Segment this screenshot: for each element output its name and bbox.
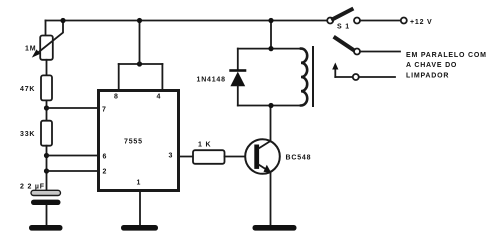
- wire S1 to +12V terminal: [360, 20, 401, 22]
- node junction dot rail IC supply: [137, 18, 142, 23]
- capacitor C1 bottom plate: [31, 200, 61, 205]
- transistor emitter lead: [259, 165, 270, 172]
- wire pin 8 up: [118, 64, 120, 91]
- potentiometer P1 1M body: [40, 36, 53, 60]
- svg-text:1M: 1M: [25, 46, 36, 53]
- wire capacitor to ground: [46, 206, 48, 226]
- node junction dot pin6 tap: [44, 153, 49, 158]
- node junction dot pin7 tap: [44, 105, 49, 110]
- diode D1 cathode bar: [229, 69, 246, 72]
- svg-text:EM PARALELO COM: EM PARALELO COM: [406, 52, 487, 59]
- svg-text:LIMPADOR: LIMPADOR: [406, 73, 449, 80]
- diode D1 lower wire: [237, 86, 239, 106]
- wire tap to pin 7: [47, 107, 99, 109]
- resistor R3 1K: [193, 150, 225, 164]
- ground bar right: [253, 225, 297, 231]
- switch S1 lever: [333, 9, 352, 19]
- svg-text:3: 3: [169, 153, 173, 160]
- wire relay parallel bottom: [238, 105, 301, 107]
- wire pins 8-4 connector bar: [119, 63, 163, 65]
- transistor collector lead: [259, 141, 271, 149]
- wire relay parallel top: [238, 48, 301, 50]
- wire 47K to 33K: [46, 100, 48, 120]
- node junction dot rail relay: [268, 18, 273, 23]
- relay K1 coil: [301, 49, 307, 106]
- diode D1 triangle: [230, 72, 245, 87]
- svg-text:1: 1: [137, 180, 141, 187]
- wire connector to rail: [139, 21, 141, 65]
- wire 33K to capacitor: [46, 146, 48, 191]
- node junction dot relay top: [268, 46, 273, 51]
- relay K1 core line: [312, 47, 314, 106]
- svg-text:2 2 µF: 2 2 µF: [20, 184, 45, 191]
- svg-text:1N4148: 1N4148: [197, 77, 226, 84]
- wire tap to pin 2: [47, 170, 99, 172]
- actuation arrowhead: [332, 63, 338, 70]
- svg-text:+12 V: +12 V: [410, 19, 433, 26]
- resistor R2 33K: [41, 121, 52, 146]
- svg-text:4: 4: [157, 94, 161, 101]
- relay contact terminal: [354, 49, 360, 55]
- svg-text:7555: 7555: [124, 139, 143, 146]
- switch S1 right terminal: [354, 18, 360, 24]
- svg-text:6: 6: [103, 154, 107, 161]
- node junction dot relay bottom: [268, 103, 273, 108]
- wire emitter to ground: [270, 172, 272, 226]
- resistor R1 47K: [41, 75, 52, 100]
- svg-text:33K: 33K: [20, 131, 35, 138]
- wire contact to text: [360, 51, 400, 53]
- node junction dot pin2 tap: [44, 168, 49, 173]
- ground bar left: [29, 225, 63, 231]
- wire 1K to base: [225, 156, 255, 158]
- wire pin 1 to ground: [139, 191, 141, 226]
- svg-text:47K: 47K: [20, 86, 35, 93]
- svg-text:BC548: BC548: [286, 155, 312, 162]
- svg-text:2: 2: [103, 169, 107, 176]
- svg-text:7: 7: [102, 107, 106, 114]
- potentiometer wiper arm: [36, 21, 63, 55]
- svg-text:8: 8: [114, 94, 118, 101]
- svg-text:A CHAVE DO: A CHAVE DO: [406, 62, 457, 69]
- potentiometer wiper arrowhead: [32, 49, 40, 57]
- terminal +12V: [401, 18, 407, 24]
- wire rail down to relay top: [270, 21, 272, 49]
- node junction dot wiper to rail: [60, 18, 65, 23]
- node junction dot on connector: [137, 61, 142, 66]
- switch S1 left terminal: [327, 18, 333, 24]
- diode D1 1N4148 anode wire: [237, 49, 239, 70]
- wire pin 4 up: [161, 64, 163, 91]
- op-amp U1 7555 timer body: [99, 91, 179, 191]
- capacitor C1 2.2uF top plate: [31, 190, 61, 195]
- svg-text:1 K: 1 K: [198, 142, 211, 149]
- transistor Q1 BC548 circle: [245, 139, 280, 174]
- wire top supply rail: [46, 20, 328, 22]
- wire tap to pin 6: [47, 155, 99, 157]
- wire rail corner down to potentiometer top: [45, 21, 47, 36]
- actuation arrow shaft: [334, 66, 336, 77]
- transistor base bar: [254, 145, 259, 169]
- transistor emitter arrowhead: [264, 165, 272, 173]
- wire terminal right: [359, 76, 395, 78]
- relay contact lever: [335, 38, 354, 51]
- svg-text:S 1: S 1: [337, 24, 350, 31]
- wire pot to 47K: [46, 60, 48, 76]
- ground bar center: [121, 225, 158, 231]
- wire arrow to terminal: [335, 76, 353, 78]
- wire collector up to relay: [270, 106, 272, 142]
- wire pin 3 to 1K: [179, 156, 194, 158]
- terminal limpador: [353, 74, 359, 80]
